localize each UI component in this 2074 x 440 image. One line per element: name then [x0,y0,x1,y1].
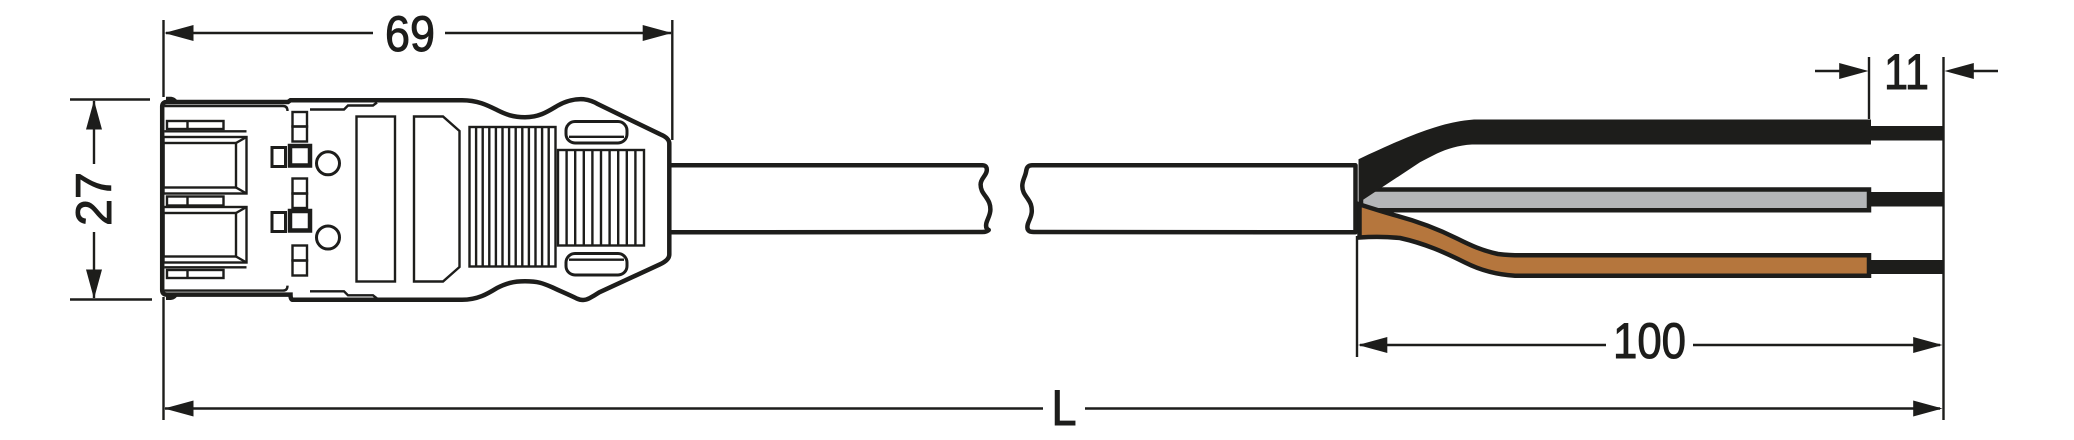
svg-text:100: 100 [1613,313,1686,369]
svg-text:27: 27 [66,172,122,226]
svg-text:69: 69 [385,6,435,62]
svg-text:L: L [1052,380,1077,436]
svg-text:11: 11 [1884,44,1929,100]
